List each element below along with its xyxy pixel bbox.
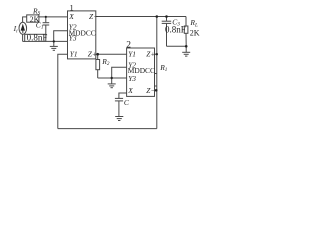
wire (Y2 of block 1) xyxy=(54,31,68,42)
svg-text:1: 1 xyxy=(70,3,74,13)
op-amp block U2 MDDCC xyxy=(127,48,155,96)
wire (bottom long wire) xyxy=(58,128,157,130)
op-amp block U1 MDDCC xyxy=(68,11,96,59)
svg-text:X: X xyxy=(68,12,74,21)
resistor R1 (on trunk, between block edge and wire) xyxy=(155,74,157,87)
capacitor C2 xyxy=(115,98,123,116)
svg-text:X: X xyxy=(127,86,133,95)
resistor R2 xyxy=(96,54,100,78)
wire xyxy=(23,16,27,18)
resistor Rs xyxy=(27,15,39,22)
node trunk top xyxy=(156,15,159,18)
wire xyxy=(23,40,25,42)
wire (Z+ of block2 stub) xyxy=(155,53,157,55)
wire (Y1 block1 to bottom loop) xyxy=(58,54,68,128)
svg-text:Z−: Z− xyxy=(146,86,155,95)
junction dots xyxy=(45,15,188,91)
svg-text:0.8nF: 0.8nF xyxy=(27,32,48,42)
svg-text:0.8nF: 0.8nF xyxy=(165,24,186,34)
resistor RL xyxy=(184,17,188,47)
capacitor C3 xyxy=(162,17,172,47)
node ground1 xyxy=(53,40,55,42)
svg-text:Y3: Y3 xyxy=(128,74,136,83)
ground (node of Y2/Y3 block1, C1, Ii) xyxy=(50,41,58,50)
svg-text:Z−: Z− xyxy=(89,12,98,21)
svg-text:Z+: Z+ xyxy=(88,50,97,59)
wire (Z+ of block1 to Y1 of block2) xyxy=(96,53,127,55)
svg-text:Y3: Y3 xyxy=(69,34,77,43)
node Z+ block1 xyxy=(96,53,99,56)
wire (Z- of block2 stub) xyxy=(155,89,157,91)
wire (C3 bottom to ground node) xyxy=(167,45,187,47)
node ground4 xyxy=(185,45,188,48)
svg-text:Z+: Z+ xyxy=(146,50,155,59)
wire (bottom of Ii loop to Y3 of block 1) xyxy=(46,40,68,42)
wire (R2 bottom to Y3 of block2) xyxy=(98,77,127,79)
svg-text:Y1: Y1 xyxy=(70,50,78,59)
ground (RL / C3) xyxy=(182,46,190,56)
node Z- block2 xyxy=(155,89,158,92)
value box 0.8nF (C1) xyxy=(25,34,46,41)
svg-text:Y1: Y1 xyxy=(128,50,136,59)
ground (Y2/Y3 of block2) xyxy=(108,78,116,88)
wire (to Y2 of block2) xyxy=(112,67,127,78)
capacitor C1 xyxy=(43,17,50,34)
ground (below C2) xyxy=(115,117,123,121)
current source Ii xyxy=(19,17,27,42)
wire (Z- of block1, top wire to RL) xyxy=(96,16,186,18)
node ground2 xyxy=(111,77,113,79)
node Z+ block2 xyxy=(156,53,158,55)
node C3 top xyxy=(165,15,168,18)
wire (right vertical trunk) xyxy=(156,17,158,129)
node C1 top xyxy=(45,16,47,18)
svg-text:2K: 2K xyxy=(190,29,200,38)
wire (X of block2 down to C2) xyxy=(119,93,127,98)
wire xyxy=(39,16,68,18)
